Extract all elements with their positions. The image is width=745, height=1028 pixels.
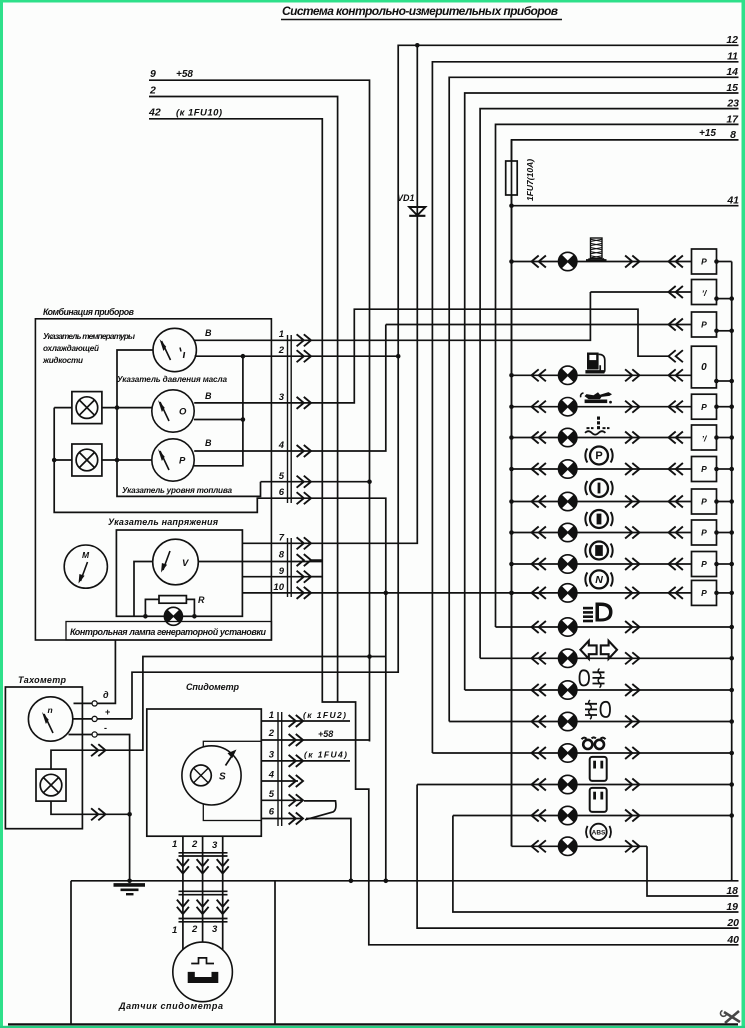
svg-text:1: 1 bbox=[172, 839, 177, 850]
svg-text:О: О bbox=[179, 407, 187, 418]
wire speedo pin 6 bbox=[261, 818, 303, 820]
node: lamp right junction bbox=[192, 614, 197, 619]
svg-text:4: 4 bbox=[268, 770, 275, 781]
svg-text:В: В bbox=[205, 328, 212, 338]
wire speedo pin 5 bbox=[261, 799, 303, 801]
svg-text:д: д bbox=[103, 690, 109, 700]
row 7: parking brake indicator bbox=[509, 447, 734, 482]
sensor connector bars bbox=[179, 853, 228, 922]
fuel reserve sensor box 0 bbox=[669, 346, 735, 388]
wire tacho terminal д bbox=[74, 640, 116, 703]
svg-text:АВS: АВS bbox=[592, 830, 606, 837]
svg-text:5: 5 bbox=[269, 789, 275, 800]
svg-text:жидкости: жидкости bbox=[42, 356, 83, 365]
svg-text:0: 0 bbox=[701, 362, 707, 373]
speedometer sensor bbox=[173, 942, 233, 1002]
node: pin5 +58 junction bbox=[367, 479, 372, 484]
row 16: trailer indicator bbox=[432, 737, 734, 762]
wire oil gauge B to pin 3 bbox=[194, 402, 311, 404]
node: tacho lamp ground junction bbox=[127, 812, 132, 817]
row 10: diff lock indicator bbox=[509, 542, 734, 577]
wire speedo pin 1 bbox=[261, 720, 350, 722]
svg-text:3: 3 bbox=[279, 392, 285, 403]
wire VD1 branch to cluster pin 7 bbox=[312, 45, 418, 543]
wire temp gauge left bbox=[117, 350, 261, 496]
svg-text:1FU7(10А): 1FU7(10А) bbox=[525, 159, 535, 201]
svg-text:Датчик спидометра: Датчик спидометра bbox=[118, 1001, 223, 1011]
speedometer connector pins 1-6 bbox=[278, 712, 282, 826]
row 2: coolant temp sensor indicator bbox=[590, 280, 734, 305]
feed labels top left bbox=[148, 68, 222, 119]
svg-text:+: + bbox=[105, 707, 110, 717]
wrench icon bbox=[721, 1011, 740, 1024]
fuel level gauge bbox=[152, 439, 194, 481]
node: pin2 chain junction bbox=[241, 354, 246, 359]
terminal number labels right edge bbox=[699, 34, 739, 946]
svg-text:Указатель уровня топлива: Указатель уровня топлива bbox=[122, 486, 232, 495]
sensor enclosure box bbox=[71, 881, 275, 1024]
wire V gauge left bbox=[134, 562, 153, 617]
node: lamp2 left junction bbox=[52, 458, 57, 463]
svg-text:N: N bbox=[595, 574, 603, 586]
svg-text:1: 1 bbox=[269, 710, 274, 721]
control lamp 1 (temp) bbox=[72, 392, 102, 424]
node: lamp left junction bbox=[143, 614, 148, 619]
wire temp gauge common to pin 2 bbox=[195, 355, 399, 357]
wire pin 1 to level sensor box row bbox=[312, 292, 591, 340]
svg-text:2: 2 bbox=[191, 924, 198, 935]
svg-text:VD1: VD1 bbox=[397, 193, 415, 203]
wire temp gauge B to pin 1 bbox=[195, 339, 312, 341]
wire pin 3 to fuel gauge box top input bbox=[312, 309, 669, 403]
row 11: neutral indicator bbox=[509, 570, 734, 605]
svg-text:2: 2 bbox=[278, 345, 285, 356]
svg-text:Спидометр: Спидометр bbox=[186, 682, 240, 692]
ground symbol bbox=[114, 883, 146, 887]
wire terminal 11 to trailer lamp row bbox=[432, 62, 738, 753]
svg-text:1: 1 bbox=[172, 925, 177, 936]
row 3: sensor row 3 indicator bbox=[386, 312, 734, 337]
wire lamps to pin 6 bbox=[54, 408, 311, 513]
svg-text:+58: +58 bbox=[176, 69, 193, 80]
svg-text:7: 7 bbox=[279, 533, 285, 544]
wire terminal 15 to rear fog lamp row bbox=[465, 93, 739, 690]
oil pressure gauge bbox=[152, 390, 194, 432]
wire speedo pin 4 bbox=[261, 780, 298, 782]
row 4: fuel reserve indicator bbox=[509, 353, 691, 385]
svg-text:1: 1 bbox=[279, 329, 284, 340]
wire fuel gauge B to pin 4 bbox=[194, 450, 311, 452]
svg-text:2: 2 bbox=[191, 839, 198, 850]
diode VD1 bbox=[409, 207, 425, 216]
row 18: door rear indicator bbox=[453, 788, 734, 825]
wire terminal 23 to turn signal lamp row bbox=[480, 109, 738, 659]
svg-text:8: 8 bbox=[730, 129, 736, 141]
svg-text:2: 2 bbox=[268, 728, 275, 739]
row 1: glow plug indicator bbox=[509, 238, 732, 274]
wire pin 6 down to ground bus bbox=[312, 498, 386, 881]
svg-text:S: S bbox=[219, 772, 226, 783]
row 9: brake warning II indicator bbox=[509, 510, 734, 545]
svg-text:2: 2 bbox=[149, 85, 156, 97]
svg-text:17: 17 bbox=[726, 114, 739, 126]
wire tacho terminal + bbox=[73, 718, 132, 720]
wire ground bus bbox=[71, 880, 739, 881]
coolant temperature gauge bbox=[153, 328, 196, 371]
node: lamp1 right junction bbox=[115, 405, 120, 410]
speedometer body box bbox=[147, 709, 261, 836]
connector chevrons pins 1-10 bbox=[297, 334, 311, 346]
svg-text:15: 15 bbox=[726, 82, 738, 94]
node: junction VD1 on line 12 bbox=[415, 43, 420, 48]
svg-text:Комбинация приборов: Комбинация приборов bbox=[43, 307, 135, 317]
wire pin 5 stub bbox=[312, 481, 370, 483]
wire sensor pin 3 bbox=[222, 836, 224, 950]
node: pin4 riser ground junction bbox=[384, 879, 389, 884]
row 17: door front indicator bbox=[417, 757, 734, 794]
svg-text:19: 19 bbox=[726, 901, 738, 913]
wire cluster pin 9 bbox=[242, 576, 322, 578]
svg-text:Указатель давления масла: Указатель давления масла bbox=[117, 375, 227, 384]
svg-text:5: 5 bbox=[279, 471, 285, 482]
wire lamp1 row bbox=[54, 407, 152, 409]
node: +58 drop on speedometer top wire bbox=[367, 654, 372, 659]
wire pin 6 to ground bus bbox=[306, 819, 351, 881]
wire terminal 18 bbox=[647, 846, 739, 896]
resistor R bbox=[159, 596, 186, 604]
wire tacho illumination bbox=[51, 657, 386, 770]
label generator lamp bbox=[66, 622, 272, 641]
svg-text:Р: Р bbox=[179, 456, 186, 467]
node: lamp2 right junction bbox=[115, 458, 120, 463]
svg-text:М: М bbox=[82, 550, 90, 560]
row 19: ABS indicator bbox=[512, 824, 648, 856]
svg-text:8: 8 bbox=[279, 550, 285, 561]
row 14: rear fog indicator bbox=[465, 669, 734, 700]
cluster box Комбинация приборов bbox=[35, 319, 271, 640]
speedo connector chevrons bbox=[289, 715, 303, 727]
wire terminal 42 (к 1FU10) feed bbox=[149, 119, 739, 945]
control lamp 2 (fuel) bbox=[72, 444, 102, 476]
wire V gauge to pin 8 bbox=[198, 561, 322, 563]
wire oil gauge common bbox=[194, 419, 243, 421]
svg-text:3: 3 bbox=[212, 840, 218, 851]
wire pin 9 stub bbox=[312, 576, 323, 578]
row 6: coolant level indicator bbox=[509, 417, 734, 451]
wire pin 8 down bbox=[312, 559, 323, 561]
svg-text:9: 9 bbox=[150, 68, 156, 80]
svg-text:14: 14 bbox=[726, 66, 738, 78]
wire cluster pin 10 to neutral lamp row bbox=[242, 592, 545, 594]
generator warning lamp bbox=[164, 607, 182, 625]
svg-text:n: n bbox=[48, 705, 53, 715]
resistor R leads bbox=[145, 599, 194, 616]
wire terminal 14 to front fog lamp row bbox=[449, 77, 738, 721]
svg-text:Система контрольно-измеритель: Система контрольно-измерительных приборо… bbox=[282, 4, 558, 18]
speedometer gauge S bbox=[182, 746, 241, 805]
svg-text:+15: +15 bbox=[699, 128, 716, 139]
wire speedo pin 2 (+58) bbox=[261, 739, 369, 741]
svg-text:Контрольная лампа генераторной: Контрольная лампа генераторной установки bbox=[70, 627, 267, 637]
wire cluster pin 7 bbox=[242, 542, 311, 544]
svg-text:3: 3 bbox=[212, 924, 218, 935]
svg-text:В: В bbox=[205, 438, 212, 448]
node: pin10 riser junction bbox=[384, 591, 389, 596]
row 12: high beam indicator bbox=[496, 603, 735, 637]
svg-text:P: P bbox=[595, 450, 602, 462]
wire gauge common chain bbox=[194, 356, 243, 466]
wire terminal 41 bbox=[512, 205, 739, 207]
node: fuse output junction (41) bbox=[509, 203, 514, 208]
wire terminal 20 to door lamp 1 bbox=[417, 785, 738, 929]
node: speedo pin6 ground junction bbox=[349, 879, 354, 884]
wire terminal 19 to door lamp 2 bbox=[453, 816, 739, 913]
svg-text:11: 11 bbox=[727, 51, 738, 63]
svg-text:18: 18 bbox=[726, 885, 738, 897]
svg-text:12: 12 bbox=[726, 34, 738, 46]
svg-text:R: R bbox=[198, 595, 205, 605]
svg-text:Указатель температуры: Указатель температуры bbox=[43, 332, 135, 341]
wire lamp2 row bbox=[54, 459, 152, 461]
row 5: oil pressure indicator bbox=[509, 392, 734, 419]
wire terminal 17 to high beam lamp row bbox=[496, 124, 739, 627]
svg-text:20: 20 bbox=[726, 917, 739, 929]
svg-text:23: 23 bbox=[726, 98, 739, 110]
wire sensor pin 2 bbox=[202, 836, 204, 942]
svg-text:(к 1FU10): (к 1FU10) bbox=[176, 108, 222, 119]
wire sensor pin 1 bbox=[182, 836, 184, 950]
svg-text:42: 42 bbox=[148, 107, 161, 119]
wire tacho lamp return bbox=[51, 801, 130, 814]
svg-text:-: - bbox=[104, 723, 107, 733]
svg-text:В: В bbox=[205, 391, 212, 401]
svg-text:41: 41 bbox=[726, 195, 739, 207]
svg-text:Указатель напряжения: Указатель напряжения bbox=[108, 517, 219, 527]
node: ground junction bbox=[127, 879, 132, 884]
svg-text:+58: +58 bbox=[318, 729, 333, 739]
sensor connector chevrons bbox=[177, 859, 189, 873]
wire cluster pin 5 bbox=[261, 481, 312, 483]
node: panel bus neutral row junction bbox=[509, 591, 514, 596]
svg-text:3: 3 bbox=[269, 750, 275, 761]
wire pin5-pin6 shielding wedge bbox=[304, 801, 336, 820]
tachometer lamp bbox=[36, 769, 66, 801]
svg-text:V: V bbox=[182, 558, 189, 569]
svg-text:6: 6 bbox=[269, 807, 275, 818]
row 8: brake warning I indicator bbox=[509, 479, 734, 514]
fuse 1FU7(10A) bbox=[506, 161, 518, 195]
panel supply bus from fuse bbox=[511, 140, 513, 846]
tacho output chevrons bbox=[91, 744, 105, 756]
tacho terminal circles bbox=[92, 701, 97, 706]
wire pin 4 riser up to sensor row 3 bbox=[312, 325, 386, 452]
svg-text:4: 4 bbox=[278, 440, 285, 451]
panel collector bus to terminal 18 bbox=[731, 262, 733, 881]
svg-text:9: 9 bbox=[279, 566, 285, 577]
voltmeter gauge V bbox=[153, 539, 199, 585]
tachometer gauge n bbox=[28, 697, 72, 741]
svg-text:6: 6 bbox=[279, 487, 285, 498]
svg-text:(к 1FU4): (к 1FU4) bbox=[304, 750, 347, 760]
svg-text:Тахометр: Тахометр bbox=[18, 675, 67, 685]
wire tacho terminal - to ground bbox=[69, 735, 130, 881]
svg-text:(к 1FU2): (к 1FU2) bbox=[303, 710, 346, 720]
node: pin2 to line 12 junction bbox=[396, 354, 401, 359]
svg-text:охлаждающей: охлаждающей bbox=[43, 344, 99, 353]
wire speedo pin 3 bbox=[261, 760, 350, 762]
svg-text:40: 40 bbox=[726, 934, 739, 946]
wire terminal 9 (+58) top feed bbox=[149, 80, 370, 741]
wire terminal 2 top feed bbox=[149, 97, 338, 703]
svg-text:10: 10 bbox=[273, 582, 284, 593]
wire terminal 12 bbox=[132, 45, 739, 719]
wire terminal 8 (+15) to panel bus bbox=[512, 140, 739, 846]
node: oil common junction bbox=[241, 417, 246, 422]
hourmeter gauge M bbox=[64, 545, 107, 588]
row 15: front fog indicator bbox=[449, 700, 734, 731]
row 13: turn signals indicator bbox=[480, 641, 734, 668]
